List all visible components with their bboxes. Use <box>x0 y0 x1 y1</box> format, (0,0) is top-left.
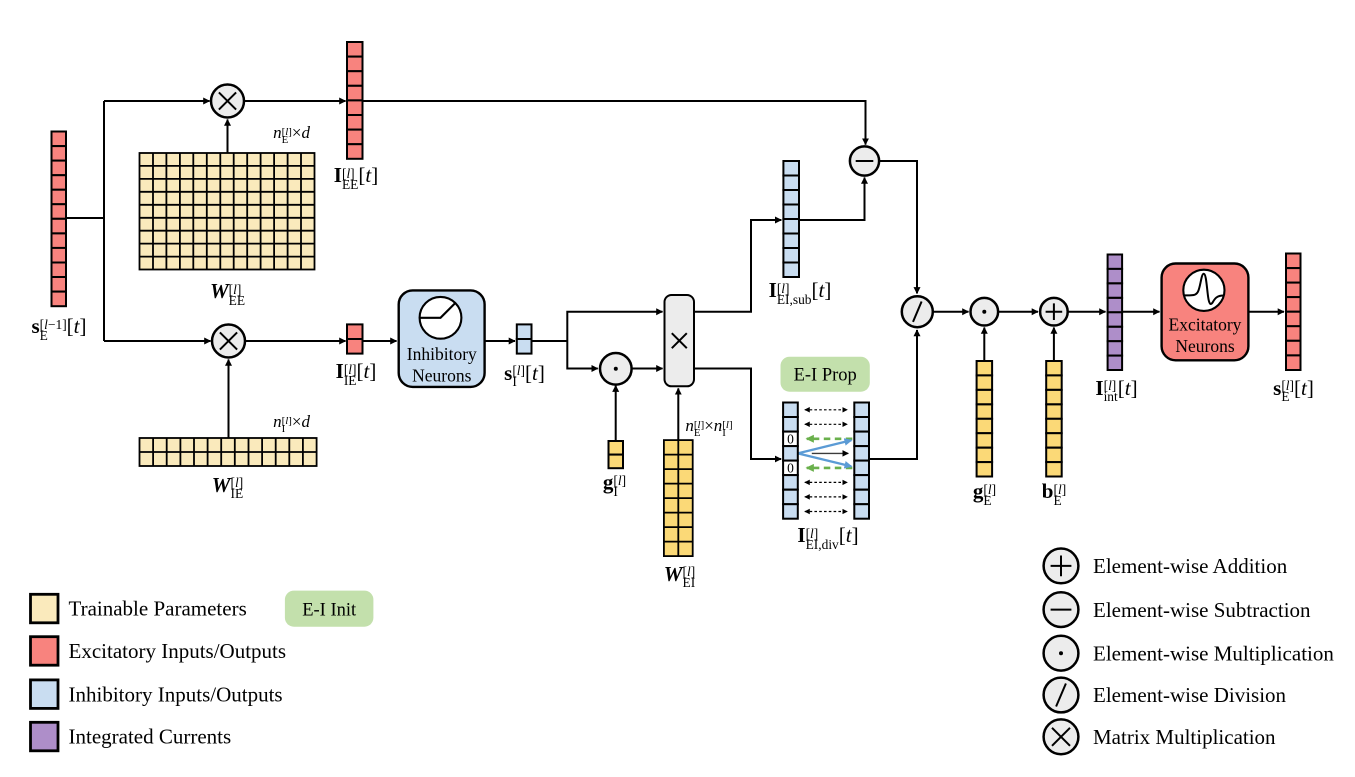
label s_I <box>504 363 545 388</box>
EI-prop dashed coupling arrow row 1 <box>805 409 848 411</box>
EI-prop green zero arrow row 5 <box>807 467 853 470</box>
legend divide node <box>1044 678 1079 713</box>
svg-text:Inhibitory Inputs/Outputs: Inhibitory Inputs/Outputs <box>69 682 283 706</box>
E-I Init tag <box>285 591 374 627</box>
label I_IE <box>336 361 377 386</box>
wire s_I upper branch to matmul box <box>567 312 662 341</box>
wire g_I to dot <box>615 386 617 441</box>
wire minus to divide node <box>879 161 917 293</box>
wire trunk vertical <box>103 101 105 341</box>
vector I_int <box>1108 255 1123 371</box>
wire I_EIsub to minus node <box>799 178 865 221</box>
legend mult node <box>1044 636 1079 671</box>
EI-prop gray arrow row 4 <box>812 452 849 454</box>
svg-text:Neurons: Neurons <box>1175 336 1234 356</box>
label g_I <box>603 472 626 497</box>
divide node <box>902 296 933 327</box>
svg-text:Matrix Multiplication: Matrix Multiplication <box>1093 725 1276 749</box>
svg-text:Element-wise Subtraction: Element-wise Subtraction <box>1093 598 1311 622</box>
wire I_IE to inhibitory box <box>363 340 397 342</box>
legend swatch trainable <box>31 594 59 623</box>
EI-prop blue divisive arrow down <box>798 453 852 466</box>
wire plus to I_int <box>1068 311 1106 313</box>
wire W_EE to matmul EE <box>227 120 229 153</box>
label W_EE <box>210 281 245 306</box>
wire input branch <box>66 217 105 219</box>
matmul box <box>665 295 695 386</box>
vector g_E <box>977 361 993 477</box>
svg-text:Inhibitory: Inhibitory <box>407 344 477 364</box>
wire divide to dot2 <box>933 311 968 313</box>
add node b_E <box>1040 298 1068 326</box>
legend matmul node <box>1044 719 1079 754</box>
vector s_E output <box>1286 254 1301 371</box>
svg-text:Element-wise Division: Element-wise Division <box>1093 683 1287 707</box>
vector s_I <box>517 324 532 353</box>
label W_EI <box>664 564 695 589</box>
wire to matmul IE <box>104 340 211 342</box>
wire matmul box lower output to EI-prop <box>694 369 781 460</box>
wire matmul IE to I_IE <box>246 340 346 342</box>
matmul node EE <box>211 85 244 118</box>
matmul node IE <box>212 325 245 358</box>
wire W_EI to matmul box <box>677 388 679 439</box>
vector g_I <box>609 441 624 468</box>
wire I_int to excitatory box <box>1122 311 1160 313</box>
wire inhibitory box to s_I <box>485 340 515 342</box>
matrix W_EI <box>664 440 693 556</box>
vector I_EE <box>347 42 363 159</box>
legend subtract node <box>1044 592 1079 627</box>
excitatory neurons box <box>1162 264 1249 361</box>
label W_IE <box>212 475 243 500</box>
label I_EIdiv <box>797 525 858 550</box>
wire s_I branch <box>532 340 568 342</box>
label I_EE <box>334 165 378 190</box>
legend add node <box>1044 549 1079 584</box>
EI-prop dashed coupling arrow row 2 <box>805 423 848 425</box>
vector I_IE <box>347 324 363 353</box>
label I_int <box>1095 378 1137 403</box>
EI-prop green zero arrow row 3 <box>807 437 853 440</box>
vector b_E <box>1046 361 1062 477</box>
vector s_E input <box>52 132 67 307</box>
EI-prop right column <box>854 403 869 519</box>
svg-text:E-I Init: E-I Init <box>302 600 357 620</box>
wire b_E to plus <box>1053 328 1055 361</box>
EI-prop blue divisive arrow up <box>798 440 852 453</box>
label s_E output <box>1273 378 1314 403</box>
svg-text:0: 0 <box>787 431 794 446</box>
wire I_EE to minus-node corner <box>363 101 866 145</box>
matrix W_IE <box>140 438 317 466</box>
subtract node <box>850 146 879 175</box>
label g_E <box>973 481 996 506</box>
EI-prop dashed coupling arrow row 8 <box>805 511 848 513</box>
wire s_I lower branch to dot <box>567 341 597 369</box>
label b_E <box>1042 481 1066 506</box>
wire matmul box upper output to I_EIsub <box>694 220 781 312</box>
elementwise-mult node g_E <box>971 298 999 326</box>
svg-text:Excitatory: Excitatory <box>1169 314 1242 334</box>
label s_E input <box>31 316 86 341</box>
wire dot to matmul box <box>631 368 663 370</box>
inhibitory neurons box <box>399 290 485 387</box>
legend swatch integrated <box>31 722 59 751</box>
label n_E x d <box>273 124 310 145</box>
vector I_EIsub <box>783 161 799 277</box>
svg-text:Element-wise Multiplication: Element-wise Multiplication <box>1093 641 1334 665</box>
wire to matmul EE <box>104 100 210 102</box>
EI-prop left column <box>783 403 798 519</box>
wire EI-prop to divide node <box>869 330 917 459</box>
svg-text:Element-wise Addition: Element-wise Addition <box>1093 554 1288 578</box>
label I_EIsub <box>769 280 832 305</box>
EI-prop dashed coupling arrow row 6 <box>805 481 848 483</box>
wire excitatory box to s_E out <box>1249 311 1285 313</box>
label n_I x d <box>273 413 310 434</box>
legend swatch excitatory <box>31 637 59 666</box>
matrix W_EE <box>140 153 315 270</box>
E-I Prop tag <box>781 357 870 392</box>
elementwise-mult node g_I <box>600 353 632 385</box>
svg-text:0: 0 <box>787 460 794 475</box>
svg-text:Integrated Currents: Integrated Currents <box>69 725 232 749</box>
EI-prop dashed coupling arrow row 7 <box>805 496 848 498</box>
wire dot2 to plus <box>998 311 1038 313</box>
svg-text:Neurons: Neurons <box>412 365 471 385</box>
wire matmul EE to I_EE <box>244 100 346 102</box>
svg-text:Excitatory Inputs/Outputs: Excitatory Inputs/Outputs <box>69 639 287 663</box>
wire W_IE to matmul IE <box>228 360 230 438</box>
svg-text:E-I Prop: E-I Prop <box>794 366 857 386</box>
label n_E x n_I <box>685 417 732 438</box>
wire g_E to dot2 <box>983 328 985 361</box>
legend swatch inhibitory <box>31 680 59 709</box>
svg-text:Trainable Parameters: Trainable Parameters <box>69 597 247 621</box>
